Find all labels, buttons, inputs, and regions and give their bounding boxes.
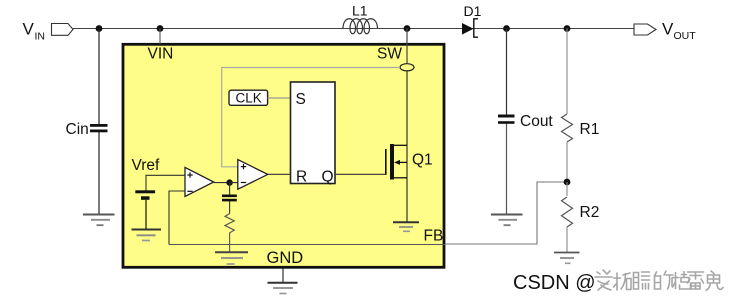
ground (Cin) [83, 215, 115, 226]
svg-text:CLK: CLK [236, 90, 262, 105]
node FB divider [564, 179, 571, 186]
wire SW ellipse to MOSFET drain [406, 71, 408, 222]
ground (Cout) [491, 215, 523, 226]
svg-text:GND: GND [267, 249, 304, 267]
op-amp error amplifier [185, 167, 214, 196]
svg-text:V: V [662, 20, 674, 39]
wire VIN pin drop [159, 29, 161, 45]
V_IN connector [52, 24, 74, 36]
svg-text:VIN: VIN [148, 46, 174, 63]
capacitor comp filter [222, 183, 237, 202]
label V_OUT [662, 20, 696, 43]
node VIN junction [96, 25, 103, 32]
capacitor Cout [498, 115, 515, 124]
transistor Q1 [385, 144, 407, 180]
wire Cin branch [98, 29, 100, 125]
wire Q to gate [335, 173, 386, 175]
op-amp comparator [238, 160, 268, 190]
wire R2 bottom [566, 227, 568, 252]
wire R1 to node [566, 142, 568, 182]
svg-text:Q: Q [322, 168, 334, 185]
V_OUT connector [634, 24, 656, 35]
ground (R2) [554, 253, 580, 264]
svg-text:R: R [296, 168, 307, 185]
wire CLK to S [268, 97, 291, 99]
wire top rail [73, 28, 634, 30]
wire SW drop [406, 29, 408, 65]
svg-text:CSDN @: CSDN @ [513, 272, 596, 294]
svg-text:FB: FB [424, 228, 444, 245]
ground (GND pin) [268, 269, 298, 294]
inductor L1 [343, 19, 378, 34]
wire error amp out [214, 182, 230, 184]
svg-text:Cout: Cout [520, 113, 553, 130]
node VOUT-Cout [503, 25, 510, 32]
svg-text:R2: R2 [580, 204, 600, 221]
svg-text:V: V [23, 20, 35, 39]
wire sense (grey) from SW to comparator [222, 68, 400, 167]
ground (Vref) [132, 230, 162, 241]
svg-text:S: S [296, 91, 306, 108]
ground (Q1 source) [393, 222, 419, 231]
svg-text:Vref: Vref [132, 157, 161, 174]
svg-text:OUT: OUT [674, 30, 697, 42]
capacitor Cin [90, 124, 108, 132]
wire comparator out to R [268, 173, 291, 175]
wire R1 branch [566, 29, 568, 115]
CLK block [229, 90, 268, 105]
label V_IN [23, 20, 46, 43]
svg-text:Cin: Cin [66, 121, 89, 138]
node VOUT-R1 [564, 25, 571, 32]
svg-text:L1: L1 [352, 3, 368, 19]
node SW top [404, 25, 411, 32]
resistor comp filter [225, 201, 234, 251]
battery Vref [135, 190, 155, 228]
svg-text:R1: R1 [580, 121, 600, 138]
wire FB feedback (outside) [445, 182, 564, 244]
node dot at VIN pin [157, 25, 164, 32]
IC body (yellow block) [123, 44, 444, 267]
svg-text:Q1: Q1 [412, 152, 433, 169]
svg-text:SW: SW [377, 46, 402, 63]
resistor R1 [562, 114, 573, 142]
watermark CJK glyphs [595, 270, 723, 291]
wire to comparator minus [230, 182, 238, 184]
wire Vref to plus input [146, 175, 185, 190]
watermark [513, 272, 596, 294]
wire R2 top [566, 182, 568, 196]
pin SW (ellipse) [400, 64, 414, 71]
svg-text:D1: D1 [464, 3, 482, 19]
svg-text:IN: IN [35, 31, 46, 43]
node comp junction [226, 179, 232, 185]
ground (comp filter) [215, 252, 248, 264]
diode D1 [462, 19, 478, 37]
wire FB to minus input [169, 191, 185, 245]
resistor R2 [562, 197, 573, 227]
latch SR [291, 82, 336, 184]
wire Cout branch [506, 29, 508, 116]
wire FB rail inside [169, 244, 445, 246]
